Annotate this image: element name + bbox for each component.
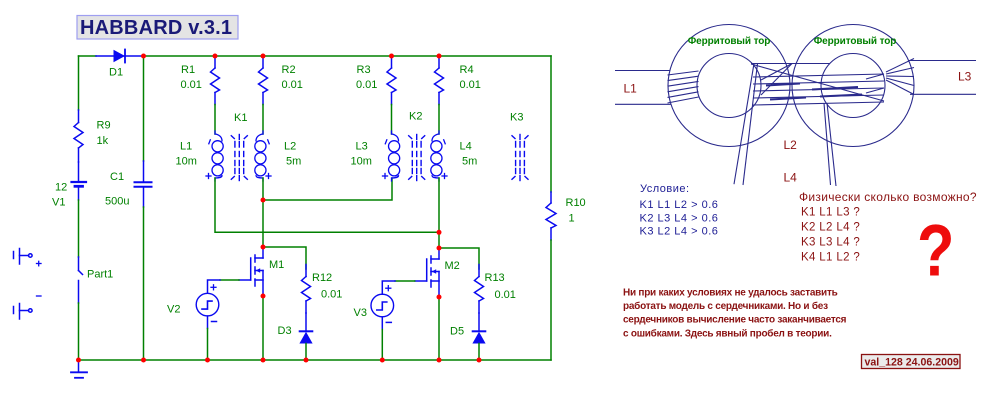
diode D5	[472, 331, 485, 343]
note paragraph dark red	[623, 287, 847, 339]
wire left column lower	[78, 303, 80, 360]
node M2 src rail	[437, 358, 442, 363]
node gnd	[76, 358, 81, 363]
resistor R1	[211, 56, 220, 105]
svg-text:L1: L1	[624, 82, 638, 96]
svg-text:L3: L3	[356, 141, 368, 153]
wire M2 source to rail	[438, 297, 440, 360]
capacitor C1	[135, 161, 152, 207]
L3 phase mark	[385, 140, 387, 144]
resistor R10	[546, 192, 556, 240]
diode D3	[299, 331, 312, 343]
wire bottom rail	[79, 359, 552, 361]
battery V1	[72, 162, 87, 200]
wire L1 bottom	[215, 178, 439, 232]
wire R12-D3	[305, 313, 307, 331]
svg-text:R13: R13	[485, 272, 505, 284]
source V3	[371, 281, 395, 330]
L4 phase mark	[444, 140, 446, 144]
node D1 out	[141, 54, 146, 59]
resistor R3	[387, 56, 396, 105]
svg-text:Ферритовый тор: Ферритовый тор	[688, 36, 771, 47]
node R1 top	[213, 54, 218, 59]
svg-text:10m: 10m	[176, 156, 197, 168]
resistor R9	[74, 110, 83, 162]
wire top rail	[144, 55, 552, 57]
toroid core 2 inner	[821, 54, 885, 118]
svg-text:D3: D3	[278, 325, 292, 337]
coupling K2	[409, 135, 425, 181]
svg-text:R9: R9	[97, 120, 111, 132]
inductor L2	[255, 131, 266, 181]
wire R4-L4	[438, 105, 440, 135]
svg-text:500u: 500u	[105, 196, 129, 208]
wire D3 to rail	[305, 344, 307, 361]
svg-text:0.01: 0.01	[460, 79, 481, 91]
node R4 top	[437, 54, 442, 59]
node V2 bottom	[205, 358, 210, 363]
wire R1-L1	[214, 105, 216, 135]
L1 phase mark	[209, 140, 211, 144]
svg-text:0.01: 0.01	[495, 289, 516, 301]
node D5 bottom	[477, 358, 482, 363]
svg-text:L1: L1	[180, 141, 192, 153]
transistor M2	[415, 248, 439, 297]
svg-text:K2 L3 L4 > 0.6: K2 L3 L4 > 0.6	[640, 212, 719, 224]
L2 phase mark	[268, 140, 270, 144]
svg-text:L2: L2	[284, 141, 296, 153]
svg-text:L2: L2	[784, 138, 798, 152]
svg-text:R4: R4	[460, 64, 474, 76]
title HABBARD v.3.1	[77, 16, 238, 40]
node D3 bottom	[304, 358, 309, 363]
node M1 src rail	[261, 358, 266, 363]
svg-text:R1: R1	[181, 64, 195, 76]
svg-text:L4: L4	[784, 171, 798, 185]
node L4 junction	[437, 230, 442, 235]
wire R2-L2	[262, 105, 264, 135]
svg-text:работать модель с сердечниками: работать модель с сердечниками. Но и без	[623, 300, 828, 312]
svg-text:5m: 5m	[462, 156, 477, 168]
node V3 bottom	[380, 358, 385, 363]
resistor R13	[475, 265, 484, 314]
resistor R12	[302, 265, 311, 314]
question text dark red	[799, 190, 977, 264]
svg-text:R2: R2	[282, 64, 296, 76]
coupling K1	[231, 135, 247, 181]
toroid core 1 outer	[668, 25, 790, 147]
svg-text:L3: L3	[958, 70, 972, 84]
svg-text:K1 L1 L2 > 0.6: K1 L1 L2 > 0.6	[640, 199, 719, 211]
svg-text:5m: 5m	[286, 156, 301, 168]
wire C1 column	[143, 56, 145, 161]
svg-text:Условие:: Условие:	[640, 183, 690, 195]
wire L2 bottom to M1 drain	[262, 178, 264, 247]
wire left column upper	[78, 56, 80, 110]
wire R13-D5	[478, 313, 480, 331]
svg-text:K2: K2	[409, 111, 422, 123]
L2 winding centre	[751, 64, 884, 106]
node M2 drain	[437, 246, 442, 251]
svg-text:K3: K3	[510, 112, 523, 124]
L4 plus mark	[442, 174, 447, 179]
svg-text:val_128 24.06.2009: val_128 24.06.2009	[865, 357, 959, 369]
terminal minus	[14, 304, 33, 320]
L1 lead bottom	[615, 103, 671, 105]
toroid core 2 outer	[792, 25, 914, 147]
svg-text:10m: 10m	[351, 156, 372, 168]
node M1 source	[261, 294, 266, 299]
BRANCH COLUMNS	[206, 56, 528, 248]
node M1 drain	[261, 245, 266, 250]
svg-text:D1: D1	[109, 67, 123, 79]
L3 lead bottom	[910, 93, 976, 95]
wire D5 to rail	[478, 344, 480, 361]
big question mark	[917, 211, 954, 292]
svg-text:Ни при каких условиях не удало: Ни при каких условиях не удалось застави…	[623, 287, 838, 298]
TOROID DIAGRAM	[615, 25, 976, 187]
wire L4 bottom to M2 drain	[438, 178, 440, 248]
svg-text:K1 L1 L3 ?: K1 L1 L3 ?	[801, 207, 860, 219]
wire top-left horizontal	[79, 55, 97, 57]
wire V3 to rail	[381, 330, 383, 361]
wire left column mid	[78, 200, 80, 257]
svg-text:1: 1	[569, 213, 575, 225]
svg-text:0.01: 0.01	[282, 79, 303, 91]
inductor L1	[212, 131, 223, 181]
svg-text:V3: V3	[354, 307, 367, 319]
wire right column lower	[550, 240, 552, 360]
L1 lead top	[615, 70, 670, 72]
svg-text:M1: M1	[269, 259, 284, 271]
svg-text:1k: 1k	[97, 135, 109, 147]
L4 down leads	[824, 103, 831, 185]
wire M1 drain to R12	[263, 247, 306, 269]
svg-text:K3 L2 L4 > 0.6: K3 L2 L4 > 0.6	[640, 226, 719, 238]
wire V2 to rail	[207, 329, 209, 361]
switch Part1	[79, 257, 83, 303]
svg-text:сердечников вычисление часто з: сердечников вычисление часто заканчивает…	[623, 315, 847, 326]
svg-text:K2 L2 L4 ?: K2 L2 L4 ?	[801, 222, 860, 234]
svg-text:V2: V2	[167, 304, 180, 316]
svg-text:Ферритовый тор: Ферритовый тор	[814, 36, 897, 47]
L3 plus mark	[383, 174, 388, 179]
coupling K3	[512, 135, 528, 181]
node R2 top	[261, 54, 266, 59]
svg-text:R10: R10	[566, 197, 586, 209]
node L2 bottom	[261, 198, 266, 203]
wire L2-L3 link	[263, 178, 392, 200]
svg-text:K4 L1 L2 ?: K4 L1 L2 ?	[801, 252, 860, 264]
wire M1 source to rail	[262, 296, 264, 360]
transistor M1	[239, 247, 263, 296]
wire right column upper	[550, 56, 552, 192]
svg-text:?: ?	[917, 211, 954, 292]
svg-text:K1: K1	[234, 112, 247, 124]
node R3 top	[389, 54, 394, 59]
wire R3-L3	[391, 105, 393, 135]
toroid core 1 inner	[697, 54, 761, 118]
L2 down leads	[734, 64, 754, 185]
svg-text:0.01: 0.01	[181, 79, 202, 91]
L3 winding turns	[886, 59, 914, 95]
resistor R4	[435, 56, 444, 105]
LOWER SECTION	[14, 247, 486, 360]
L2 plus mark	[266, 174, 271, 179]
resistor R2	[259, 56, 268, 105]
svg-text:M2: M2	[445, 260, 460, 272]
svg-text:V1: V1	[52, 197, 65, 209]
condition text navy	[640, 183, 719, 238]
version box	[862, 355, 961, 369]
L3 lead top	[908, 60, 976, 62]
svg-text:R12: R12	[312, 272, 332, 284]
svg-text:0.01: 0.01	[356, 79, 377, 91]
wire M2 gate	[395, 280, 415, 282]
svg-text:C1: C1	[110, 171, 124, 183]
svg-text:12: 12	[55, 182, 67, 194]
svg-text:0.01: 0.01	[321, 289, 342, 301]
source V2	[196, 280, 220, 329]
green component labels	[52, 64, 586, 338]
node M2 source	[437, 295, 442, 300]
svg-text:HABBARD v.3.1: HABBARD v.3.1	[80, 17, 232, 39]
L1 winding turns	[668, 71, 699, 103]
ground	[71, 361, 87, 378]
inductor L3	[389, 131, 400, 181]
wire C1 column lower	[143, 207, 145, 360]
svg-text:K3 L3 L4 ?: K3 L3 L4 ?	[801, 237, 860, 249]
svg-text:R3: R3	[357, 64, 371, 76]
wire M1 gate	[220, 279, 239, 281]
svg-text:L4: L4	[460, 141, 472, 153]
terminal plus	[14, 249, 33, 265]
svg-text:с ошибками. Здесь явный пробел: с ошибками. Здесь явный пробел в теории.	[623, 327, 832, 339]
inductor L4	[431, 131, 442, 181]
svg-text:D5: D5	[450, 326, 464, 338]
node C1 bottom	[141, 358, 146, 363]
L1 plus mark	[206, 174, 211, 179]
wire M2 drain to R13	[439, 248, 479, 269]
svg-text:Физически сколько возможно?: Физически сколько возможно?	[799, 190, 977, 204]
diode D1	[96, 50, 144, 63]
svg-text:Part1: Part1	[87, 269, 113, 281]
